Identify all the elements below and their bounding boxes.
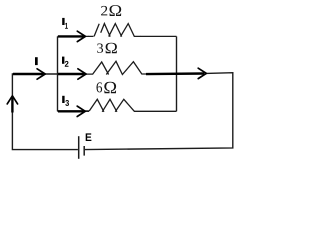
resistor R2 value label 3 ohm [97,43,117,54]
current arrow I1 on top branch [58,31,85,41]
wire: bottom branch right [134,110,177,112]
current arrow I on main wire [13,69,45,79]
current arrow out on middle branch to right loop [146,68,206,78]
wire: main node left, left vertical, bottom-left to battery [12,74,78,150]
current label I2 [62,57,64,64]
wire: top branch left [58,35,90,37]
resistor R1 2 ohm [89,24,141,37]
battery E long plate [78,136,80,159]
resistor R1 value label 2 ohm [101,5,121,16]
current arrow I3 on bottom branch [58,106,85,116]
current arrow I2 on middle branch [58,69,86,79]
node: right bus joining the three branches [176,36,178,111]
resistor R3 6 ohm [84,99,134,112]
current label I [35,57,38,65]
battery E short plate [83,146,85,156]
resistor R3 value label 6 ohm [97,82,117,94]
current label I3 [62,96,64,103]
battery label E [86,133,92,141]
node: left bus joining the three branches [57,36,59,111]
wire: battery to bottom-right corner, outer right vertical up to output node [85,73,233,150]
wire: bottom branch left [58,110,90,112]
current arrow up on left vertical [7,96,17,113]
resistor R2 3 ohm [86,61,150,74]
wire: middle branch left [58,73,88,75]
current label I1 [62,18,64,25]
wire: top branch right [141,35,177,37]
